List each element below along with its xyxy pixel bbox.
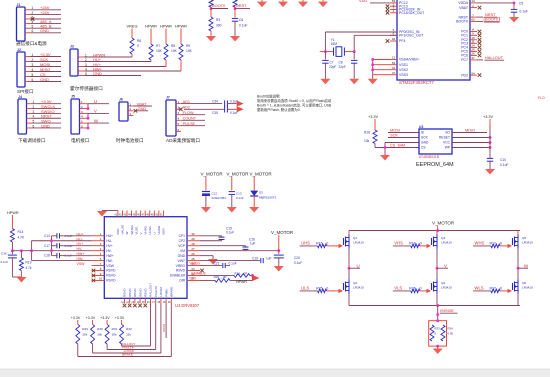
svg-text:CP2: CP2 xyxy=(179,239,186,243)
svg-text:C14: C14 xyxy=(44,234,50,238)
svg-text:FLO: FLO xyxy=(538,96,545,100)
svg-text:SO: SO xyxy=(445,131,450,135)
svg-text:V_MOTOR: V_MOTOR xyxy=(432,221,455,226)
svg-text:C7: C7 xyxy=(330,61,334,65)
svg-text:+3.3V: +3.3V xyxy=(115,316,125,320)
svg-text:25: 25 xyxy=(191,257,195,261)
svg-text:11k: 11k xyxy=(126,333,131,337)
svg-text:R19: R19 xyxy=(26,261,32,265)
svg-text:GND: GND xyxy=(178,254,186,258)
svg-text:V: V xyxy=(94,109,97,114)
svg-text:C5: C5 xyxy=(519,2,523,6)
svg-text:PC7: PC7 xyxy=(461,58,468,62)
svg-text:PD2: PD2 xyxy=(461,73,468,77)
svg-text:BRAKE: BRAKE xyxy=(122,353,133,357)
svg-text:0: 0 xyxy=(137,44,139,48)
svg-text:V_MOTOR: V_MOTOR xyxy=(201,171,224,176)
svg-text:R6: R6 xyxy=(137,39,141,43)
svg-text:22pF: 22pF xyxy=(329,65,336,69)
svg-text:VHS: VHS xyxy=(394,241,403,246)
svg-text:C6: C6 xyxy=(239,18,243,22)
svg-text:ENABLE#: ENABLE# xyxy=(170,274,185,278)
svg-text:30: 30 xyxy=(191,232,195,236)
svg-text:WHSG: WHSG xyxy=(130,225,134,235)
svg-text:26: 26 xyxy=(471,52,475,56)
svg-text:31: 31 xyxy=(392,66,396,70)
svg-text:0.1uF: 0.1uF xyxy=(520,10,528,14)
svg-text:WP: WP xyxy=(445,146,451,150)
svg-text:DIR: DIR xyxy=(179,279,185,283)
svg-text:VSS3: VSS3 xyxy=(399,73,408,77)
svg-text:VHSG: VHSG xyxy=(143,225,147,234)
svg-text:MISO: MISO xyxy=(465,127,475,132)
svg-text:+3.3V: +3.3V xyxy=(71,316,81,320)
svg-text:30k: 30k xyxy=(97,333,102,337)
svg-text:LOCK#: LOCK# xyxy=(159,287,163,297)
svg-text:VSW: VSW xyxy=(77,262,86,266)
svg-text:26: 26 xyxy=(191,252,195,256)
svg-text:V_MOTOR: V_MOTOR xyxy=(271,230,294,235)
svg-text:VSW: VSW xyxy=(106,264,114,268)
svg-text:HPWR: HPWR xyxy=(7,211,19,215)
svg-text:J6: J6 xyxy=(119,98,123,102)
svg-text:UHSG: UHSG xyxy=(157,225,161,234)
svg-text:W: W xyxy=(125,232,129,235)
svg-text:SI: SI xyxy=(421,131,424,135)
svg-text:NRST: NRST xyxy=(236,3,247,8)
svg-text:R9: R9 xyxy=(186,44,190,48)
svg-text:BOOT0: BOOT0 xyxy=(212,3,226,8)
svg-text:VBAT: VBAT xyxy=(459,6,469,10)
svg-text:ULSG: ULSG xyxy=(148,226,152,235)
svg-text:R14: R14 xyxy=(18,230,24,234)
svg-text:4.7K: 4.7K xyxy=(18,236,25,240)
svg-text:R34: R34 xyxy=(448,327,454,331)
svg-text:63: 63 xyxy=(392,61,396,65)
svg-text:J1: J1 xyxy=(17,3,21,7)
svg-text:C12: C12 xyxy=(212,191,218,195)
svg-text:J7: J7 xyxy=(166,96,170,100)
svg-text:WHS: WHS xyxy=(475,241,485,246)
svg-text:UHS: UHS xyxy=(301,241,310,246)
svg-text:C34: C34 xyxy=(212,100,218,104)
svg-text:LR3410: LR3410 xyxy=(441,285,452,289)
svg-text:RSVD: RSVD xyxy=(138,288,142,297)
svg-text:1uF: 1uF xyxy=(266,256,272,260)
svg-text:RSVD: RSVD xyxy=(144,288,148,297)
svg-text:ULS: ULS xyxy=(301,286,309,291)
svg-text:R7: R7 xyxy=(156,44,160,48)
svg-text:HW+: HW+ xyxy=(106,254,113,258)
svg-text:13: 13 xyxy=(471,0,475,3)
svg-text:10: 10 xyxy=(99,277,103,281)
svg-text:C13: C13 xyxy=(236,191,242,195)
svg-text:VINT: VINT xyxy=(177,259,185,263)
svg-text:300: 300 xyxy=(216,24,222,28)
svg-text:16M: 16M xyxy=(331,42,338,46)
svg-text:C17: C17 xyxy=(44,244,50,248)
svg-text:R31: R31 xyxy=(112,327,118,331)
svg-text:RSVD: RSVD xyxy=(176,269,186,273)
svg-text:30k: 30k xyxy=(112,333,117,337)
svg-text:0.1uF: 0.1uF xyxy=(294,261,302,265)
svg-text:STM32F303RCT7: STM32F303RCT7 xyxy=(399,80,434,85)
svg-text:FAULT#: FAULT# xyxy=(154,286,158,297)
svg-text:C19: C19 xyxy=(252,256,258,260)
svg-text:54: 54 xyxy=(471,71,475,75)
svg-text:23: 23 xyxy=(191,267,195,271)
svg-text:霍尔传感器接口: 霍尔传感器接口 xyxy=(70,85,103,92)
svg-text:PWM: PWM xyxy=(162,324,166,332)
svg-text:J3: J3 xyxy=(70,45,74,49)
svg-text:EEPROM_64M: EEPROM_64M xyxy=(416,162,454,168)
svg-text:ISENSE: ISENSE xyxy=(440,309,454,313)
svg-text:VALSG: VALSG xyxy=(121,224,125,234)
svg-text:37: 37 xyxy=(471,56,475,60)
svg-text:V: V xyxy=(139,232,143,234)
svg-text:C10: C10 xyxy=(500,158,506,162)
svg-text:0.1uF: 0.1uF xyxy=(1,260,9,264)
svg-text:C36: C36 xyxy=(1,252,7,256)
svg-text:0.1uF: 0.1uF xyxy=(239,24,247,28)
svg-text:60: 60 xyxy=(471,18,475,22)
svg-text:U4 DRV8307: U4 DRV8307 xyxy=(175,303,200,308)
svg-text:ENABLE: ENABLE xyxy=(191,271,206,275)
svg-text:GND: GND xyxy=(40,28,49,33)
svg-text:RSVD: RSVD xyxy=(106,269,116,273)
svg-text:电机接口: 电机接口 xyxy=(71,137,90,144)
svg-text:29: 29 xyxy=(191,237,195,241)
svg-text:C18: C18 xyxy=(44,254,50,258)
svg-text:U: U xyxy=(357,263,360,268)
svg-text:R20__0R: R20__0R xyxy=(214,275,228,279)
svg-text:MBRS100T3: MBRS100T3 xyxy=(259,196,277,200)
svg-text:HPWR: HPWR xyxy=(160,24,172,29)
svg-text:J2: J2 xyxy=(17,48,21,52)
svg-text:C8: C8 xyxy=(339,61,343,65)
svg-text:HPWR: HPWR xyxy=(175,24,187,29)
svg-text:SCK: SCK xyxy=(390,132,398,137)
svg-text:VSSA/VREF-: VSSA/VREF- xyxy=(399,58,421,62)
svg-text:VM: VM xyxy=(180,249,185,253)
svg-text:VSS1: VSS1 xyxy=(399,63,408,67)
svg-text:R8: R8 xyxy=(171,44,175,48)
svg-text:12: 12 xyxy=(392,56,396,60)
svg-text:10K: 10K xyxy=(171,49,178,53)
svg-text:0.1uF: 0.1uF xyxy=(226,231,234,235)
svg-text:HV+: HV+ xyxy=(106,244,113,248)
svg-text:+3.3V: +3.3V xyxy=(86,316,96,320)
svg-text:+3.3V: +3.3V xyxy=(483,115,493,119)
svg-text:C21: C21 xyxy=(214,261,220,265)
svg-text:J5: J5 xyxy=(71,95,75,99)
svg-text:4.7k: 4.7k xyxy=(26,266,32,270)
svg-text:+3.3V: +3.3V xyxy=(368,115,378,119)
svg-text:HV-: HV- xyxy=(106,249,112,253)
svg-text:22pF: 22pF xyxy=(339,65,346,69)
svg-text:220uF/35V: 220uF/35V xyxy=(212,196,227,200)
svg-text:C35: C35 xyxy=(212,111,218,115)
svg-text:0.1uF: 0.1uF xyxy=(500,163,508,167)
svg-text:RESET: RESET xyxy=(439,136,450,140)
svg-text:GND: GND xyxy=(93,71,102,76)
svg-text:GND: GND xyxy=(40,77,49,82)
svg-text:下载调试接口: 下载调试接口 xyxy=(18,137,46,144)
svg-text:V_MOTOR: V_MOTOR xyxy=(226,171,249,176)
svg-text:PAD: PAD xyxy=(116,228,120,235)
svg-text:VSS2: VSS2 xyxy=(399,68,408,72)
svg-text:GND: GND xyxy=(421,141,429,145)
svg-text:常用来设置启动选项: Boot0 = 0, 从用户Flash: 常用来设置启动选项: Boot0 = 0, 从用户Flash启动 xyxy=(257,98,332,103)
svg-text:HU+: HU+ xyxy=(106,234,113,238)
svg-text:RSVD: RSVD xyxy=(106,274,116,278)
svg-text:HALLOUT: HALLOUT xyxy=(149,283,153,297)
svg-text:LR3410: LR3410 xyxy=(522,285,533,289)
svg-text:1uF: 1uF xyxy=(250,242,256,246)
svg-text:0.1uF: 0.1uF xyxy=(236,196,244,200)
svg-text:PF1/OSC_OUT: PF1/OSC_OUT xyxy=(399,34,424,38)
svg-text:VREG: VREG xyxy=(126,24,137,29)
svg-text:V_MOTOR: V_MOTOR xyxy=(250,171,273,176)
svg-text:27: 27 xyxy=(191,247,195,251)
svg-text:10K: 10K xyxy=(186,49,193,53)
svg-text:AD采集预留端口: AD采集预留端口 xyxy=(166,137,200,144)
svg-text:VDD: VDD xyxy=(359,0,367,3)
svg-text:LR3410: LR3410 xyxy=(522,240,533,244)
svg-text:HALLOUT: HALLOUT xyxy=(485,55,504,60)
svg-text:LR3410: LR3410 xyxy=(353,285,364,289)
svg-text:VREG: VREG xyxy=(190,261,201,265)
svg-text:W: W xyxy=(94,118,98,123)
svg-text:V: V xyxy=(444,263,447,268)
svg-text:+24V: +24V xyxy=(40,10,50,15)
svg-text:10K: 10K xyxy=(156,49,163,53)
svg-text:D3: D3 xyxy=(259,190,263,194)
svg-text:VLS: VLS xyxy=(394,286,402,291)
svg-text:R16: R16 xyxy=(364,131,370,135)
svg-text:PC15/32K_OUT: PC15/32K_OUT xyxy=(399,11,425,15)
svg-text:HPWR: HPWR xyxy=(145,24,157,29)
svg-text:0.1uF: 0.1uF xyxy=(229,261,237,265)
svg-text:HPWR: HPWR xyxy=(236,280,247,284)
svg-text:HW-: HW- xyxy=(106,259,113,263)
svg-text:Boot0 = 1, 从Bootloader启动, 可以使用: Boot0 = 1, 从Bootloader启动, 可以使用串口, USB xyxy=(257,103,332,108)
svg-text:U: U xyxy=(153,232,157,234)
svg-text:通信接口&电源: 通信接口&电源 xyxy=(16,40,47,47)
svg-text:HU-: HU- xyxy=(106,239,112,243)
svg-text:VCP: VCP xyxy=(178,244,186,248)
svg-text:0.05: 0.05 xyxy=(448,332,454,336)
svg-text:VDDA: VDDA xyxy=(458,1,468,5)
svg-text:BRAKE: BRAKE xyxy=(170,287,174,297)
svg-text:U: U xyxy=(94,99,97,104)
svg-text:时钟电池接口: 时钟电池接口 xyxy=(116,137,144,144)
svg-text:GND: GND xyxy=(41,123,50,128)
svg-text:R23__0R: R23__0R xyxy=(234,271,248,275)
svg-text:PC6: PC6 xyxy=(461,54,468,58)
svg-text:CS: CS xyxy=(421,146,426,150)
svg-text:VREG: VREG xyxy=(176,264,186,268)
svg-text:VLSG: VLSG xyxy=(134,226,138,235)
svg-text:RSVD: RSVD xyxy=(106,279,116,283)
svg-text:RSVD: RSVD xyxy=(123,288,127,297)
svg-text:R30: R30 xyxy=(97,327,103,331)
svg-text:LR3410: LR3410 xyxy=(353,240,364,244)
svg-text:28: 28 xyxy=(191,242,195,246)
svg-text:R3: R3 xyxy=(216,18,220,22)
svg-text:10k: 10k xyxy=(364,139,370,143)
svg-text:R29: R29 xyxy=(82,327,88,331)
svg-text:RSVD: RSVD xyxy=(133,288,137,297)
svg-text:Boot0功能说明:: Boot0功能说明: xyxy=(257,94,280,99)
svg-text:更新用户Flash, 默认设置为0: 更新用户Flash, 默认设置为0 xyxy=(257,107,300,112)
svg-text:47: 47 xyxy=(392,71,396,75)
svg-text:WLS: WLS xyxy=(475,286,484,291)
svg-text:AT45DB041B: AT45DB041B xyxy=(419,155,440,159)
svg-text:U3: U3 xyxy=(419,125,423,129)
svg-text:30k: 30k xyxy=(82,333,87,337)
svg-text:CS_64M: CS_64M xyxy=(390,142,405,147)
svg-text:RSVD: RSVD xyxy=(128,288,132,297)
svg-text:BOOT0: BOOT0 xyxy=(456,20,468,24)
svg-text:R33: R33 xyxy=(435,327,441,331)
svg-text:SCK: SCK xyxy=(421,136,429,140)
svg-text:R32: R32 xyxy=(126,327,132,331)
svg-text:PF4: PF4 xyxy=(399,39,405,43)
svg-text:LR3410: LR3410 xyxy=(441,240,452,244)
svg-text:PC1: PC1 xyxy=(461,34,468,38)
svg-text:J4: J4 xyxy=(18,95,22,99)
svg-text:18: 18 xyxy=(392,37,396,41)
svg-text:+3.3V: +3.3V xyxy=(100,316,110,320)
svg-text:CP1: CP1 xyxy=(179,234,186,238)
svg-text:EEN: EEN xyxy=(162,228,166,234)
svg-text:VCC: VCC xyxy=(443,141,451,145)
svg-text:C20: C20 xyxy=(294,256,300,260)
svg-text:PWM: PWM xyxy=(164,289,168,297)
svg-text:DIR: DIR xyxy=(190,276,197,280)
